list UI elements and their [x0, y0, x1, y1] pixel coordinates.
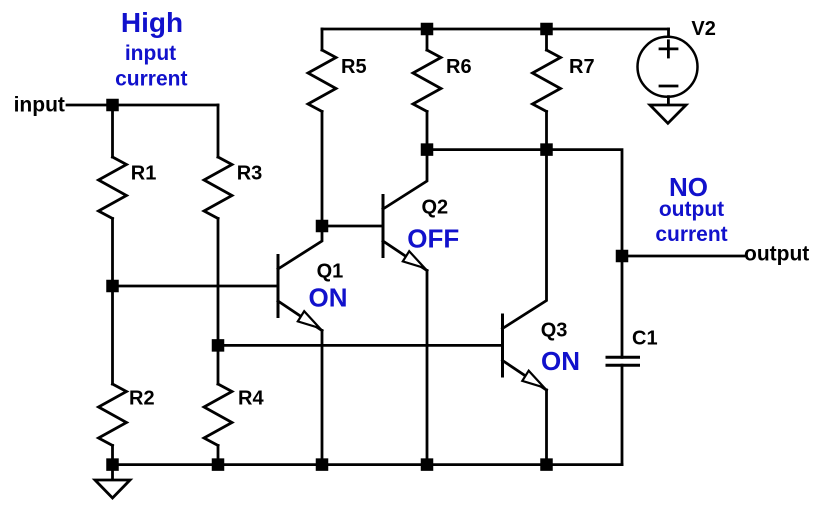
- svg-text:input: input: [14, 93, 65, 116]
- svg-text:ON: ON: [309, 283, 348, 313]
- svg-text:OFF: OFF: [407, 224, 459, 254]
- node output junction: [616, 250, 629, 263]
- node ground rail R2: [106, 458, 119, 471]
- capacitor C1: [607, 256, 639, 465]
- svg-text:R2: R2: [129, 388, 155, 410]
- wire R5 bottom to Q1 collector junction: [321, 112, 324, 227]
- svg-text:Q3: Q3: [541, 320, 568, 342]
- wire collector rail: [427, 150, 622, 256]
- ground bottom left: [95, 465, 130, 498]
- transistor Q3: [503, 150, 547, 465]
- wire R7 bottom: [545, 112, 548, 150]
- resistor R7: [533, 50, 561, 112]
- svg-text:R6: R6: [446, 56, 472, 78]
- svg-text:Q1: Q1: [317, 261, 344, 283]
- wire Q1 base: [113, 285, 277, 288]
- svg-text:R7: R7: [569, 56, 595, 78]
- resistor R1: [99, 157, 127, 219]
- resistor R2: [99, 384, 127, 446]
- wire R2 top: [111, 286, 114, 384]
- wire R6 bottom: [426, 112, 429, 150]
- svg-text:current: current: [115, 68, 187, 91]
- node R1 bottom / Q1 base: [106, 280, 119, 293]
- svg-text:Q2: Q2: [422, 197, 449, 219]
- node ground rail Q3 emitter: [540, 458, 553, 471]
- svg-text:output: output: [744, 242, 809, 265]
- ground under V2: [650, 105, 686, 123]
- svg-text:High: High: [121, 7, 183, 38]
- wire R6 top: [426, 29, 429, 50]
- svg-text:ON: ON: [541, 346, 580, 376]
- svg-text:R3: R3: [237, 163, 263, 185]
- svg-text:R4: R4: [238, 388, 264, 410]
- wire R1 top vertical: [111, 105, 114, 157]
- voltage source V2: [638, 29, 698, 105]
- node R6 bottom / Q2 collector: [421, 143, 434, 156]
- wire R4 bottom: [217, 446, 220, 465]
- svg-text:C1: C1: [632, 328, 658, 350]
- resistor R6: [413, 50, 441, 112]
- wire Q2 base: [322, 225, 382, 228]
- node Q1 collector / Q2 base: [316, 220, 329, 233]
- wire output: [622, 255, 744, 258]
- wire Q3 base rail: [218, 344, 502, 347]
- wire bottom rail: [113, 463, 623, 466]
- node R7 bottom / Q3 collector: [540, 143, 553, 156]
- node ground rail Q1 emitter: [316, 458, 329, 471]
- svg-text:input: input: [125, 42, 176, 65]
- svg-text:output: output: [659, 198, 724, 221]
- svg-text:V2: V2: [691, 18, 715, 40]
- wire input: [67, 104, 218, 107]
- resistor R5: [308, 50, 336, 112]
- transistor Q2: [383, 150, 427, 465]
- svg-text:R5: R5: [341, 56, 367, 78]
- wire R1 bottom: [111, 219, 114, 287]
- svg-text:current: current: [655, 223, 727, 246]
- wire R2 bottom: [111, 446, 114, 465]
- wire R5 top: [321, 29, 324, 50]
- node ground rail Q2 emitter: [421, 458, 434, 471]
- resistor R3: [204, 157, 232, 219]
- node R3/R4 / Q3 base: [212, 339, 225, 352]
- wire R4 top: [217, 345, 220, 384]
- node R7 top: [540, 23, 553, 36]
- node input junction: [106, 99, 119, 112]
- node ground rail R4: [212, 458, 225, 471]
- wire R3 top vertical: [217, 105, 220, 157]
- svg-text:R1: R1: [131, 163, 157, 185]
- wire top rail: [322, 28, 669, 31]
- node R6 top: [421, 23, 434, 36]
- wire R3 bottom to R4 junction: [217, 219, 220, 346]
- transistor Q1: [278, 226, 322, 465]
- wire R7 top: [545, 29, 548, 50]
- resistor R4: [204, 384, 232, 446]
